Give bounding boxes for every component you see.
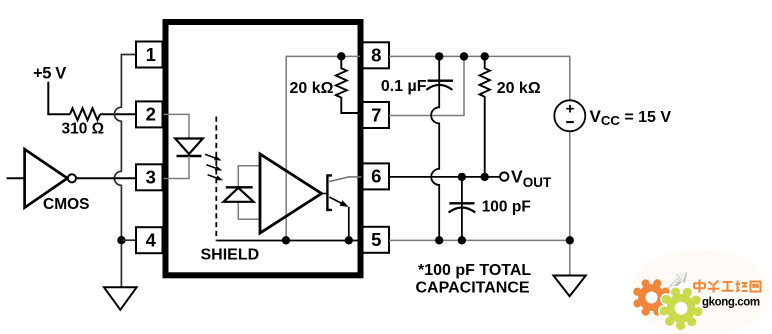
- resistor R2 20 kΩ internal: [336, 56, 363, 113]
- junction dot rail at 20k: [481, 52, 489, 60]
- wire photodiode cathode to amp (internal): [238, 166, 259, 188]
- pin 4 box: [136, 227, 163, 253]
- svg-text:3: 3: [146, 167, 156, 188]
- resistor R3 20 kΩ external: [480, 56, 490, 177]
- voltage source VCC circle: [554, 100, 585, 131]
- logo text 中华工控网: [694, 280, 761, 293]
- junction dot 20k bottom: [481, 173, 489, 181]
- logo arrow: [665, 280, 679, 294]
- CMOS inverter gate triangle: [25, 149, 68, 207]
- logo gear orange: [633, 279, 669, 315]
- VCC source minus sign: [566, 121, 574, 123]
- wire pin 2 to LED anode (internal): [163, 114, 190, 138]
- wire shield rail to pin 5: [216, 240, 362, 242]
- transistor Q1 collector line to pin 6: [329, 177, 362, 182]
- light arrow 1: [205, 154, 216, 158]
- wire emitter to shield rail: [348, 207, 350, 241]
- CMOS inverter output bubble: [68, 174, 76, 182]
- pin 5 box: [363, 227, 390, 253]
- op-amp U1 optocoupler package outline: [166, 22, 361, 275]
- pin 1 box: [136, 42, 163, 68]
- svg-text:8: 8: [371, 45, 381, 66]
- junction dot internal 20k top: [337, 52, 345, 60]
- char 工: [722, 282, 734, 291]
- photodiode D2: [224, 188, 254, 202]
- wire +5V supply to resistor R1: [48, 82, 70, 114]
- light arrow 3: [208, 175, 218, 178]
- wire ground bus to pin 4: [121, 239, 136, 241]
- LED emitter diode D1: [175, 139, 203, 155]
- svg-text:4: 4: [146, 230, 157, 251]
- char 华: [708, 281, 720, 293]
- svg-text:2: 2: [146, 104, 156, 125]
- wire CMOS gate input: [7, 177, 25, 179]
- resistor R1 310 ohm zigzag: [70, 108, 100, 120]
- transistor Q1 base bar: [327, 175, 332, 210]
- capacitor C2 plates: [449, 202, 474, 204]
- pin 8 box: [363, 42, 390, 68]
- junction dot rail at 0.1uF: [435, 52, 443, 60]
- wire VCC top rail from pin 8: [389, 56, 570, 100]
- svg-text:*100 pF TOTAL: *100 pF TOTAL: [418, 262, 531, 279]
- junction dot C2 bottom: [458, 236, 466, 244]
- wire pin 8 internal supply to amplifier and shield rail: [286, 56, 360, 240]
- light arrow 2: [206, 165, 216, 169]
- junction dot 100pF top: [458, 173, 466, 181]
- svg-text:1: 1: [146, 44, 156, 65]
- wire amp output to transistor base: [321, 193, 328, 195]
- junction dot C1 bottom: [435, 236, 443, 244]
- svg-text:SHIELD: SHIELD: [201, 247, 260, 264]
- op-amp amplifier triangle fill: [260, 154, 322, 233]
- pin 6 box: [363, 163, 390, 189]
- junction dot rail at pin7 riser: [460, 52, 468, 60]
- op-amp amplifier triangle stroke: [260, 154, 322, 233]
- junction dot amp ground on shield rail: [282, 236, 290, 244]
- shield dashed line: [215, 117, 217, 241]
- svg-text:310 Ω: 310 Ω: [62, 121, 105, 138]
- capacitor C2 100pF lead: [461, 177, 463, 240]
- pin 7 box: [363, 102, 390, 128]
- svg-text:100 pF: 100 pF: [482, 199, 531, 216]
- svg-text:6: 6: [371, 166, 381, 187]
- svg-text:gkong.com: gkong.com: [702, 297, 760, 309]
- wire pin 7 to top rail: [389, 56, 464, 115]
- char 网: [751, 282, 761, 292]
- transistor Q1 emitter line with arrow: [329, 197, 342, 204]
- char 中: [694, 280, 705, 293]
- node VOUT open terminal: [500, 172, 508, 180]
- VCC source plus sign: [566, 105, 574, 113]
- pin 2 box: [136, 101, 163, 127]
- capacitor C1 0.1uF lead with hops over pin7 and pin6 wires: [431, 56, 439, 240]
- ground symbol right: [553, 276, 585, 297]
- wire pin1 to ground bus (vertical with crossover hops): [114, 55, 136, 288]
- char 控: [736, 281, 748, 292]
- svg-text:CMOS: CMOS: [43, 196, 90, 213]
- wire pin 5 ground rail: [389, 239, 570, 241]
- svg-text:CAPACITANCE: CAPACITANCE: [416, 280, 530, 297]
- svg-text:5: 5: [371, 229, 381, 250]
- ground symbol left: [104, 287, 137, 310]
- capacitor C1 plates: [428, 79, 453, 81]
- junction dot VCC return: [566, 236, 574, 244]
- wire photodiode anode to amp (internal): [238, 202, 259, 219]
- junction dot emitter on shield rail: [345, 236, 353, 244]
- wire CMOS output to pin 3: [76, 177, 136, 179]
- wire LED cathode to pin 3 (internal): [163, 156, 190, 179]
- svg-text:0.1 µF: 0.1 µF: [381, 78, 427, 95]
- junction dot pin4/ground bus: [117, 236, 125, 244]
- wire VCC source to ground: [569, 131, 571, 275]
- logo gear green: [659, 287, 702, 330]
- svg-text:20 kΩ: 20 kΩ: [497, 80, 541, 97]
- svg-text:20 kΩ: 20 kΩ: [290, 80, 334, 97]
- wire resistor R1 to pin 2: [100, 113, 136, 115]
- svg-text:7: 7: [371, 104, 381, 125]
- svg-text:+5 V: +5 V: [33, 64, 66, 82]
- pin 3 box: [136, 164, 163, 190]
- wire pin 6 to VOUT: [389, 176, 500, 178]
- logo glow background: [630, 249, 770, 334]
